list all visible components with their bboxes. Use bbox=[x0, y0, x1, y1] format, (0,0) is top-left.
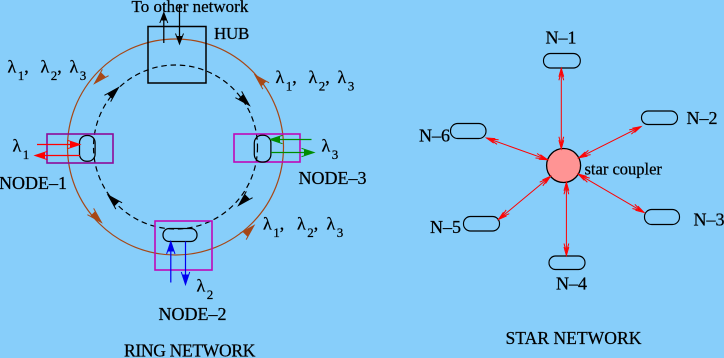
green arrow lambda3 out of NODE-3 bbox=[271, 148, 314, 156]
N-1 node capsule bbox=[544, 54, 581, 69]
arrow up to other network bbox=[160, 13, 168, 44]
black ring arrow top-left (clockwise) bbox=[104, 84, 121, 101]
brown ring arrow bottom-right (counterclockwise) bbox=[240, 222, 257, 239]
N-3 node capsule bbox=[645, 210, 680, 225]
NODE-3 box bbox=[234, 134, 300, 162]
black ring arrow bottom-left (clockwise) bbox=[105, 192, 122, 209]
HUB box bbox=[148, 27, 206, 84]
svg-text:N–6: N–6 bbox=[419, 126, 450, 146]
spoke to N-1 (red double arrow) bbox=[559, 68, 564, 149]
NODE-2 box bbox=[155, 221, 212, 270]
NODE-1 box bbox=[47, 134, 113, 163]
svg-text:NODE–2: NODE–2 bbox=[159, 304, 227, 324]
spoke to N-5 (red double arrow) bbox=[497, 174, 552, 221]
blue arrow lambda2 into NODE-2 (up) bbox=[167, 242, 175, 283]
svg-text:N–3: N–3 bbox=[694, 210, 724, 230]
N-6 node capsule bbox=[451, 124, 487, 139]
spoke to N-4 (red double arrow) bbox=[564, 182, 569, 255]
ring outer fiber (brown circle) bbox=[68, 39, 284, 255]
red arrow lambda1 into NODE-1 bbox=[37, 140, 80, 148]
NODE-3 coupler (vertical stadium) bbox=[254, 135, 271, 162]
svg-text:NODE–1: NODE–1 bbox=[0, 173, 67, 193]
svg-text:star coupler: star coupler bbox=[585, 160, 663, 179]
svg-text:STAR NETWORK: STAR NETWORK bbox=[506, 328, 642, 348]
black ring arrow bottom-right (clockwise) bbox=[235, 191, 252, 208]
red arrow lambda1 out of NODE-1 bbox=[35, 151, 80, 159]
svg-text:HUB: HUB bbox=[214, 24, 249, 43]
black ring arrow top-right (clockwise) bbox=[235, 91, 252, 108]
green arrow lambda3 into NODE-3 bbox=[270, 135, 312, 143]
spoke to N-6 (red double arrow) bbox=[486, 136, 549, 162]
svg-text:To other network: To other network bbox=[132, 0, 249, 16]
N-4 node capsule bbox=[549, 256, 585, 270]
spoke to N-2 (red double arrow) bbox=[578, 124, 642, 159]
svg-text:RING NETWORK: RING NETWORK bbox=[124, 341, 256, 358]
NODE-2 coupler (horizontal stadium) bbox=[163, 229, 197, 242]
svg-text:N–4: N–4 bbox=[556, 274, 587, 294]
svg-text:N–2: N–2 bbox=[687, 108, 718, 128]
NODE-1 coupler (vertical stadium) bbox=[80, 136, 96, 162]
svg-text:N–1: N–1 bbox=[546, 28, 577, 48]
spoke to N-3 (red double arrow) bbox=[577, 172, 645, 215]
ring inner dashed fiber (black dashed circle) bbox=[94, 65, 258, 229]
svg-text:N–5: N–5 bbox=[430, 217, 461, 237]
N-2 node capsule bbox=[642, 111, 678, 125]
svg-text:NODE–3: NODE–3 bbox=[299, 168, 367, 188]
arrow down from other network bbox=[176, 5, 184, 44]
N-5 node capsule bbox=[464, 217, 500, 232]
blue arrow lambda2 out of NODE-2 (down) bbox=[181, 242, 189, 285]
star coupler bbox=[547, 149, 581, 183]
brown ring arrow bottom-left (counterclockwise) bbox=[87, 208, 104, 225]
brown ring arrow top-left (counterclockwise) bbox=[91, 69, 108, 86]
brown ring arrow top-right (counterclockwise) bbox=[252, 72, 269, 89]
